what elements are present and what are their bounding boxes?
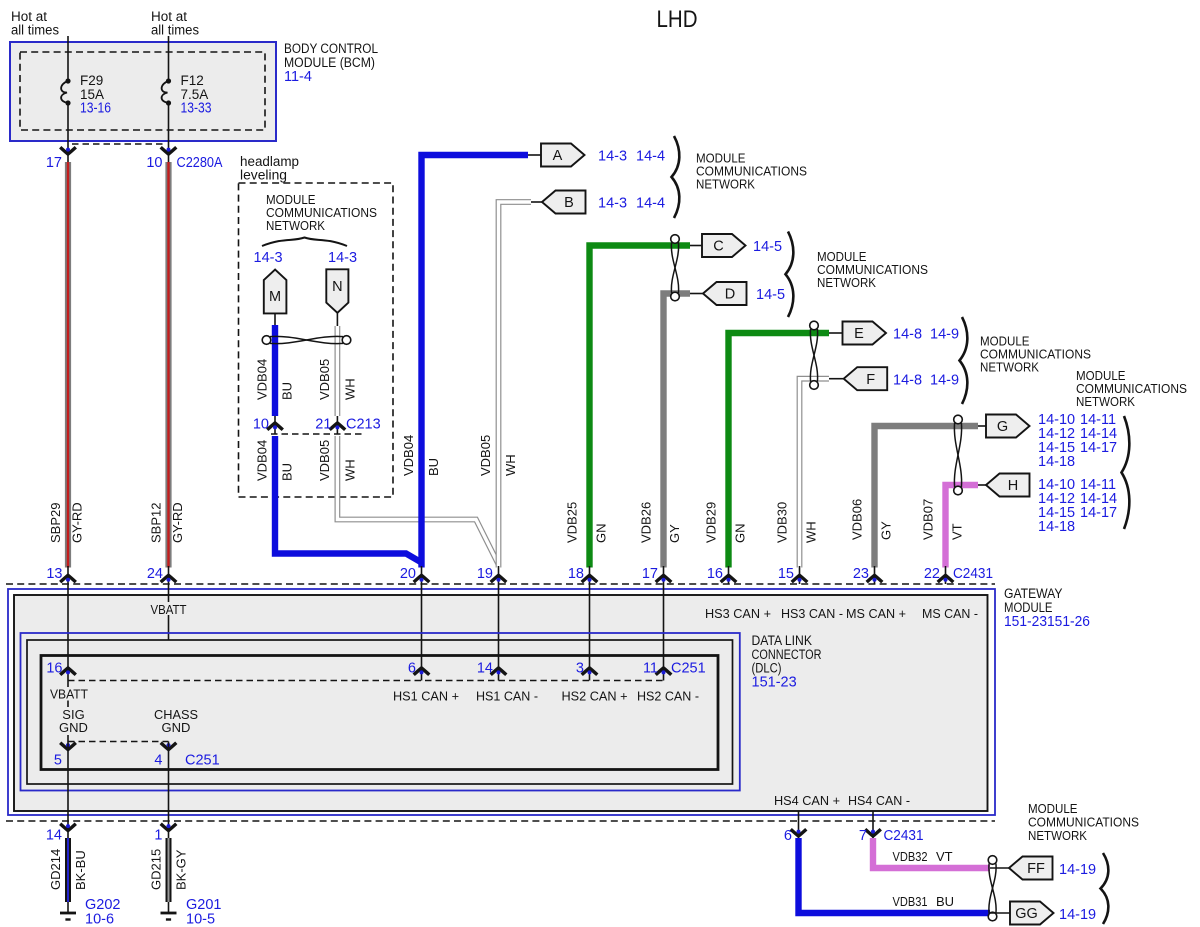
svg-text:WH: WH (503, 454, 518, 476)
svg-text:C213: C213 (346, 417, 381, 433)
svg-text:VDB26: VDB26 (639, 502, 654, 543)
label DATA LINK CONNECTOR (DLC) 151-23 (752, 633, 822, 691)
svg-text:14-17: 14-17 (1080, 505, 1117, 521)
svg-text:SBP29: SBP29 (48, 503, 63, 543)
svg-text:HS2 CAN +: HS2 CAN + (562, 689, 628, 704)
wire F12 out (168, 106, 170, 163)
connector G (986, 415, 1030, 438)
svg-text:15: 15 (778, 566, 794, 582)
label SBP29 GY-RD (48, 502, 84, 543)
DLC pin 3 (576, 661, 597, 677)
DLC pin 16 (46, 661, 75, 677)
svg-text:VBATT: VBATT (151, 602, 187, 617)
svg-text:VDB05: VDB05 (317, 440, 332, 481)
wire link to GG (990, 912, 1010, 914)
label VDB06 GY (850, 499, 894, 540)
wire VDB07 VT (946, 485, 979, 568)
svg-text:WH: WH (804, 521, 819, 543)
svg-text:F12: F12 (181, 73, 204, 88)
pin 23 gateway top (853, 566, 882, 584)
svg-text:VDB07: VDB07 (921, 499, 936, 540)
svg-text:11-4: 11-4 (284, 69, 312, 85)
pin 16 gateway top (707, 566, 736, 584)
label MODULE COMMUNICATIONS NETWORK (C/D) (817, 249, 928, 290)
wire HS4+ stub (798, 811, 800, 838)
ground G202 (60, 897, 120, 927)
connector C2280A dashed line (72, 143, 164, 145)
label C251 top (671, 661, 706, 677)
wire N stub (336, 313, 338, 326)
svg-text:NETWORK: NETWORK (266, 218, 325, 233)
svg-text:A: A (553, 148, 563, 164)
svg-text:VDB32: VDB32 (893, 849, 928, 864)
svg-text:C251: C251 (671, 661, 706, 677)
svg-text:151-23151-26: 151-23151-26 (1004, 614, 1090, 630)
label C2431 top (953, 566, 993, 582)
pin 7 arrow bottom (859, 828, 881, 844)
label HS3 CAN + (705, 606, 771, 621)
gateway top dashed connector line (6, 583, 995, 585)
svg-text:BU: BU (280, 382, 295, 400)
svg-text:BU: BU (280, 463, 295, 481)
svg-text:MS CAN +: MS CAN + (846, 606, 906, 621)
wire link to FF (990, 867, 1009, 869)
svg-text:GY-RD: GY-RD (70, 502, 85, 543)
svg-text:FF: FF (1027, 861, 1045, 877)
connector M (264, 270, 287, 314)
svg-text:LHD: LHD (657, 6, 698, 33)
wire link to G (978, 425, 986, 427)
svg-text:GN: GN (733, 524, 748, 544)
wire SBP12 GY-RD (165, 162, 171, 568)
wire link to H (978, 484, 986, 486)
label VDB05 WH (main) (478, 435, 518, 476)
wire VDB30 WH (800, 379, 830, 568)
svg-text:VDB31: VDB31 (893, 894, 928, 909)
wire VDB05 WH (headlamp upper) (334, 326, 340, 416)
wire VDB04 BU branch to pin 20 (275, 436, 422, 563)
svg-text:7: 7 (859, 828, 867, 844)
svg-text:M: M (269, 289, 281, 305)
svg-text:14-17: 14-17 (1080, 440, 1117, 456)
connector N (326, 269, 348, 313)
wire VBATT pin24 stub (168, 584, 170, 640)
label MODULE COMMUNICATIONS NETWORK (G/H) (1076, 368, 1187, 409)
label MODULE COMMUNICATIONS NETWORK (A/B) (696, 151, 807, 192)
svg-text:MS CAN -: MS CAN - (922, 606, 978, 621)
svg-text:4: 4 (154, 753, 162, 769)
label HS4 CAN - (848, 793, 910, 808)
svg-text:13-33: 13-33 (181, 101, 212, 117)
svg-text:DATA LINK: DATA LINK (752, 633, 813, 648)
svg-text:BK-BU: BK-BU (73, 850, 88, 890)
svg-text:MODULE (BCM): MODULE (BCM) (284, 55, 375, 70)
label MS CAN + (846, 606, 906, 621)
svg-text:3: 3 (576, 661, 584, 677)
pin 17 gateway top (642, 566, 671, 584)
svg-text:18: 18 (568, 566, 584, 582)
fuse F29 (61, 78, 71, 105)
svg-text:14-4: 14-4 (636, 196, 665, 212)
label MODULE COMMUNICATIONS NETWORK (E/F) (980, 334, 1091, 375)
svg-text:C2431: C2431 (884, 828, 924, 844)
node Hot at all times (right feed) (151, 9, 199, 38)
svg-text:C2280A: C2280A (177, 155, 223, 171)
module DLC blue box (21, 633, 740, 791)
svg-text:VDB29: VDB29 (704, 502, 719, 543)
svg-text:14: 14 (477, 661, 493, 677)
label 14-3 (M) (254, 250, 283, 266)
wire VDB31 BU (799, 838, 991, 913)
wire F29 out (67, 106, 69, 163)
svg-text:14-4: 14-4 (636, 149, 665, 165)
module BCM box (10, 42, 276, 141)
wire pin19 to DLC pin14 (498, 584, 500, 681)
label G refs (1038, 412, 1117, 470)
svg-text:VDB04: VDB04 (255, 359, 270, 400)
twisted pair E/F (810, 321, 819, 389)
pin 22 gateway top (924, 566, 953, 584)
label VBATT (gateway) (149, 602, 188, 617)
svg-text:6: 6 (784, 828, 792, 844)
connector F (844, 367, 888, 390)
pin 13 gateway top (46, 566, 75, 584)
wire feed to F12 (168, 36, 170, 79)
svg-text:14-5: 14-5 (753, 239, 782, 255)
label VDB26 GY (639, 502, 683, 543)
svg-text:17: 17 (46, 155, 62, 171)
svg-text:VDB30: VDB30 (775, 502, 790, 543)
wire pin17 to DLC pin11 (663, 584, 665, 681)
svg-text:14-8: 14-8 (893, 373, 922, 389)
svg-text:13: 13 (46, 566, 62, 582)
connector C213 dashed line (271, 433, 364, 435)
gateway bottom dashed connector line (6, 820, 995, 822)
wire pin20 to DLC pin6 (421, 584, 423, 681)
label 14-19 (FF) (1059, 862, 1096, 878)
twisted pair M-N (262, 336, 351, 345)
svg-text:MODULE: MODULE (1004, 600, 1053, 615)
label HS4 CAN + (774, 793, 840, 808)
svg-text:BU: BU (936, 894, 954, 909)
svg-text:NETWORK: NETWORK (1028, 828, 1087, 843)
brace G/H network (1122, 416, 1130, 529)
wire SIG GND (67, 681, 69, 742)
label C213 (346, 417, 381, 433)
svg-text:14-3: 14-3 (254, 250, 283, 266)
wire VDB05 WH branch to pin 19 (337, 436, 498, 565)
DLC pin 14 (477, 661, 506, 677)
label SIG GND (56, 707, 92, 735)
connector GG (1010, 902, 1054, 925)
svg-text:14-3: 14-3 (598, 196, 627, 212)
svg-text:21: 21 (315, 417, 331, 433)
label HS2 CAN + (562, 689, 628, 704)
svg-text:24: 24 (147, 566, 163, 582)
pin 14 arrow (46, 821, 76, 844)
svg-text:C: C (713, 239, 723, 255)
svg-text:B: B (564, 195, 574, 211)
svg-text:151-23: 151-23 (752, 675, 797, 691)
svg-text:WH: WH (343, 378, 358, 400)
svg-text:E: E (854, 326, 864, 342)
wire link to F (829, 378, 844, 380)
svg-text:GD215: GD215 (149, 849, 164, 890)
pin 10 arrow (146, 147, 176, 171)
wire link to D (690, 293, 703, 295)
brace E/F network (960, 317, 968, 404)
wire VDB04 BU (headlamp upper) (272, 325, 278, 416)
svg-text:N: N (332, 279, 342, 295)
svg-text:GN: GN (594, 524, 609, 544)
svg-text:14-19: 14-19 (1059, 862, 1096, 878)
pin 18 gateway top (568, 566, 597, 584)
pin 4 arrow (154, 743, 176, 769)
svg-text:BODY CONTROL: BODY CONTROL (284, 41, 378, 56)
wire M stub (274, 313, 276, 325)
wire pin10 link (274, 416, 276, 434)
connector C251 bottom dashed line (68, 741, 169, 743)
pin 15 gateway top (778, 566, 807, 584)
label GATEWAY MODULE 151-23 151-26 (1004, 586, 1090, 630)
DLC pin 11 (643, 661, 671, 677)
brace FF/GG network (1101, 853, 1109, 924)
svg-text:C2431: C2431 (953, 566, 993, 582)
svg-text:NETWORK: NETWORK (1076, 394, 1135, 409)
wire to G202 (67, 902, 69, 912)
svg-text:WH: WH (343, 459, 358, 481)
svg-text:HS4 CAN +: HS4 CAN + (774, 793, 840, 808)
svg-text:F: F (866, 372, 875, 388)
svg-text:17: 17 (642, 566, 658, 582)
wire pin18 to DLC pin3 (589, 584, 591, 681)
svg-text:VT: VT (936, 849, 953, 864)
wire VDB26 GY (664, 294, 691, 568)
wire link to A (528, 154, 541, 156)
label VDB07 VT (921, 499, 965, 540)
wire to G201 (168, 902, 170, 912)
wire VDB29 GN (729, 333, 830, 568)
svg-text:11: 11 (643, 661, 658, 677)
svg-text:VDB04: VDB04 (255, 440, 270, 481)
svg-text:H: H (1008, 478, 1018, 494)
wire VBATT pin13 to DLC pin16 (67, 584, 69, 681)
svg-text:14-8: 14-8 (893, 327, 922, 343)
twisted pair C/D (671, 235, 680, 301)
connector A (541, 144, 585, 167)
label GD214 BK-BU (48, 849, 88, 890)
label H refs (1038, 477, 1117, 535)
svg-text:14-19: 14-19 (1059, 907, 1096, 923)
label HS1 CAN - (476, 689, 538, 704)
twisted pair G/H (954, 415, 963, 495)
svg-text:6: 6 (408, 661, 416, 677)
svg-text:NETWORK: NETWORK (817, 275, 876, 290)
label F29 15A 13-16 (80, 73, 111, 117)
svg-text:10-5: 10-5 (186, 912, 215, 927)
wire VDB25 GN (590, 246, 691, 568)
label C2280A (177, 155, 223, 171)
svg-text:GND: GND (162, 720, 191, 735)
pin 20 gateway top (400, 566, 429, 584)
label 14-5 (D) (756, 287, 785, 303)
svg-text:GY: GY (667, 524, 682, 543)
svg-text:1: 1 (154, 828, 162, 844)
label 14-3 (N) (328, 250, 357, 266)
wire VDB32 VT (873, 838, 990, 868)
pin 19 gateway top (477, 566, 506, 584)
wire SBP29 GY-RD (65, 162, 71, 568)
label VDB05 WH (upper) (317, 359, 358, 400)
pin 5 arrow (54, 743, 76, 769)
svg-text:19: 19 (477, 566, 493, 582)
label VDB32 VT text (893, 849, 953, 864)
svg-text:16: 16 (707, 566, 723, 582)
svg-text:leveling: leveling (240, 168, 287, 183)
svg-text:14-5: 14-5 (756, 287, 785, 303)
svg-text:5: 5 (54, 753, 62, 769)
node Hot at all times (left feed) (11, 9, 59, 38)
svg-text:GND: GND (59, 720, 88, 735)
pin 10 C213 arrow (253, 417, 283, 433)
label VDB25 GN (565, 502, 609, 543)
svg-text:HS3 CAN +: HS3 CAN + (705, 606, 771, 621)
wire feed to F29 (67, 36, 69, 79)
svg-text:VT: VT (950, 523, 965, 540)
svg-text:HS1 CAN -: HS1 CAN - (476, 689, 538, 704)
svg-text:all times: all times (151, 23, 199, 38)
svg-text:14-9: 14-9 (930, 327, 959, 343)
wire link to C (690, 245, 702, 247)
connector C251 top dashed line (68, 680, 664, 682)
module headlamp leveling box (239, 154, 394, 497)
pin 17 arrow (46, 147, 76, 171)
connector FF (1009, 857, 1053, 880)
connector B (542, 191, 586, 214)
module GATEWAY outer blue box (8, 589, 995, 815)
svg-text:G: G (997, 419, 1008, 435)
ground G201 (161, 897, 222, 927)
label 14-8 14-9 (E) (893, 327, 959, 343)
pin 21 C213 arrow (315, 417, 345, 433)
module GATEWAY black box (14, 595, 988, 811)
svg-text:20: 20 (400, 566, 416, 582)
wire link to B (531, 201, 542, 203)
label HS3 CAN - (781, 606, 843, 621)
svg-text:14-3: 14-3 (328, 250, 357, 266)
label 14-3 14-4 (A) (598, 149, 665, 165)
svg-text:14-18: 14-18 (1038, 454, 1075, 470)
wire pin5 to gateway bottom (67, 742, 69, 822)
label F12 7.5A 13-33 (181, 73, 212, 117)
svg-text:GG: GG (1015, 906, 1038, 922)
pin 24 gateway top (147, 566, 176, 584)
svg-text:VDB06: VDB06 (850, 499, 865, 540)
svg-text:14: 14 (46, 828, 62, 844)
svg-text:BU: BU (426, 458, 441, 476)
svg-text:VDB25: VDB25 (565, 502, 580, 543)
label VDB04 BU (lower) (255, 440, 295, 481)
svg-text:GATEWAY: GATEWAY (1004, 586, 1063, 601)
wire HS4- stub (872, 811, 874, 838)
svg-text:HS3 CAN -: HS3 CAN - (781, 606, 843, 621)
svg-text:VDB05: VDB05 (478, 435, 493, 476)
svg-text:13-16: 13-16 (80, 101, 111, 117)
svg-text:HS2 CAN -: HS2 CAN - (637, 689, 699, 704)
DLC pin 6 (408, 661, 429, 677)
label VDB30 WH (775, 502, 819, 543)
label HS2 CAN - (637, 689, 699, 704)
svg-text:14-18: 14-18 (1038, 519, 1075, 535)
label CHASS GND (154, 707, 198, 735)
brace C/D network (786, 232, 794, 318)
label C2431 bottom (884, 828, 924, 844)
wire VDB06 GY (875, 426, 979, 568)
wire GD215 BK-GY (166, 838, 172, 902)
label SBP12 GY-RD (149, 502, 186, 543)
svg-text:23: 23 (853, 566, 869, 582)
svg-text:(DLC): (DLC) (752, 661, 782, 676)
wire pin4 to gateway bottom (168, 742, 170, 822)
pin 1 arrow (154, 821, 176, 844)
label VDB04 BU (main) (401, 435, 441, 476)
label VDB04 BU (upper) (255, 359, 295, 400)
wire pin21 link (336, 416, 338, 434)
label 14-3 14-4 (B) (598, 196, 665, 212)
connector H (986, 474, 1030, 497)
svg-text:GY: GY (879, 521, 894, 540)
fuse F12 (162, 78, 172, 105)
twisted pair FF/GG (988, 856, 997, 921)
brace A/B network (672, 136, 680, 218)
svg-text:F29: F29 (80, 73, 103, 88)
label C251 bottom (185, 753, 220, 769)
svg-text:NETWORK: NETWORK (980, 360, 1039, 375)
svg-text:HS4 CAN -: HS4 CAN - (848, 793, 910, 808)
title LHD (657, 6, 698, 33)
wire VDB05 WH main (499, 202, 532, 568)
label BODY CONTROL MODULE (BCM) 11-4 (284, 41, 378, 85)
svg-text:VDB05: VDB05 (317, 359, 332, 400)
svg-text:SBP12: SBP12 (149, 503, 164, 543)
svg-text:14-9: 14-9 (930, 373, 959, 389)
label VBATT (DLC) (47, 687, 91, 702)
svg-text:GY-RD: GY-RD (170, 502, 185, 543)
wire VDB04 BU main (422, 155, 529, 568)
label MS CAN - (922, 606, 978, 621)
module DLC thick box (41, 656, 718, 770)
svg-text:16: 16 (46, 661, 62, 677)
label 14-5 (C) (753, 239, 782, 255)
wire GD214 BK-BU (65, 838, 71, 902)
connector D (703, 282, 747, 305)
label VDB31 BU text (893, 894, 955, 909)
wire link to E (829, 332, 843, 334)
pin 6 arrow bottom (784, 828, 806, 844)
connector E (843, 322, 887, 345)
svg-text:14-3: 14-3 (598, 149, 627, 165)
overbrace headlamp network (262, 238, 347, 247)
svg-text:BK-GY: BK-GY (174, 849, 189, 890)
svg-text:10-6: 10-6 (85, 912, 114, 927)
module DLC mid box (27, 640, 733, 784)
svg-text:22: 22 (924, 566, 940, 582)
svg-text:HS1 CAN +: HS1 CAN + (393, 689, 459, 704)
label VDB05 WH (lower) (317, 440, 358, 481)
label HS1 CAN + (393, 689, 459, 704)
label GD215 BK-GY (149, 849, 189, 890)
svg-text:C251: C251 (185, 753, 220, 769)
